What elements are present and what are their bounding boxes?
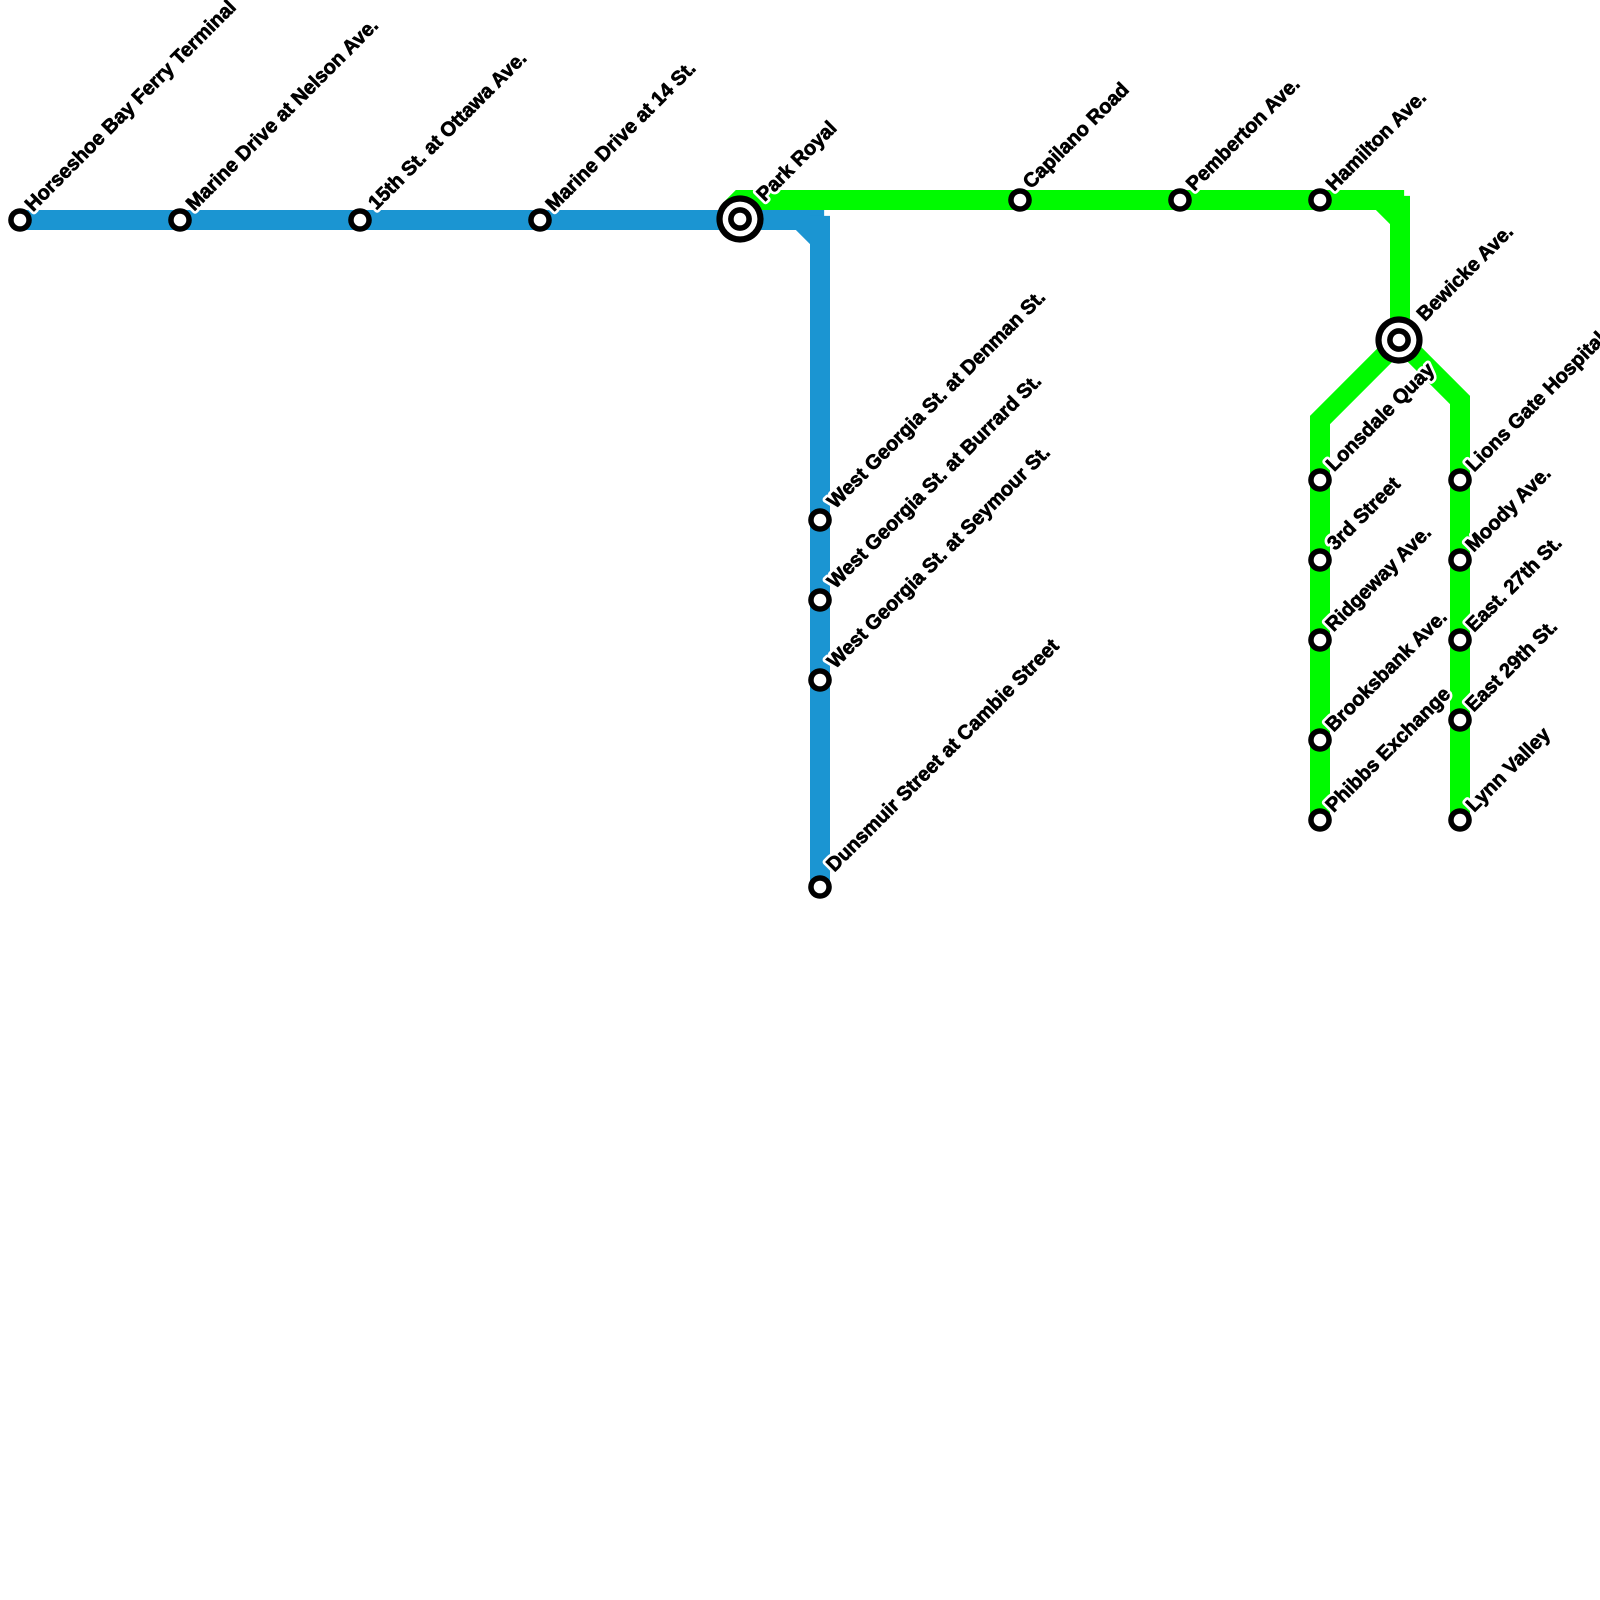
svg-text:Capilano Road: Capilano Road xyxy=(1019,79,1134,194)
svg-text:Hamilton Ave.: Hamilton Ave. xyxy=(1322,87,1431,196)
svg-text:Marine Drive at 14 St.: Marine Drive at 14 St. xyxy=(542,57,701,216)
svg-text:3rd Street: 3rd Street xyxy=(1323,473,1405,555)
svg-text:Pemberton Ave.: Pemberton Ave. xyxy=(1182,73,1304,195)
svg-text:Lynn Valley: Lynn Valley xyxy=(1462,723,1555,816)
svg-text:Dunsmuir Street at Cambie Stre: Dunsmuir Street at Cambie Street xyxy=(822,635,1063,876)
svg-text:Lonsdale Quay: Lonsdale Quay xyxy=(1322,358,1440,476)
svg-text:Marine Drive at Nelson Ave.: Marine Drive at Nelson Ave. xyxy=(182,14,383,215)
svg-text:15th St. at Ottawa Ave.: 15th St. at Ottawa Ave. xyxy=(364,47,531,214)
svg-text:Lions Gate Hospital: Lions Gate Hospital xyxy=(1462,328,1600,476)
svg-text:Bewicke Ave.: Bewicke Ave. xyxy=(1413,221,1518,326)
